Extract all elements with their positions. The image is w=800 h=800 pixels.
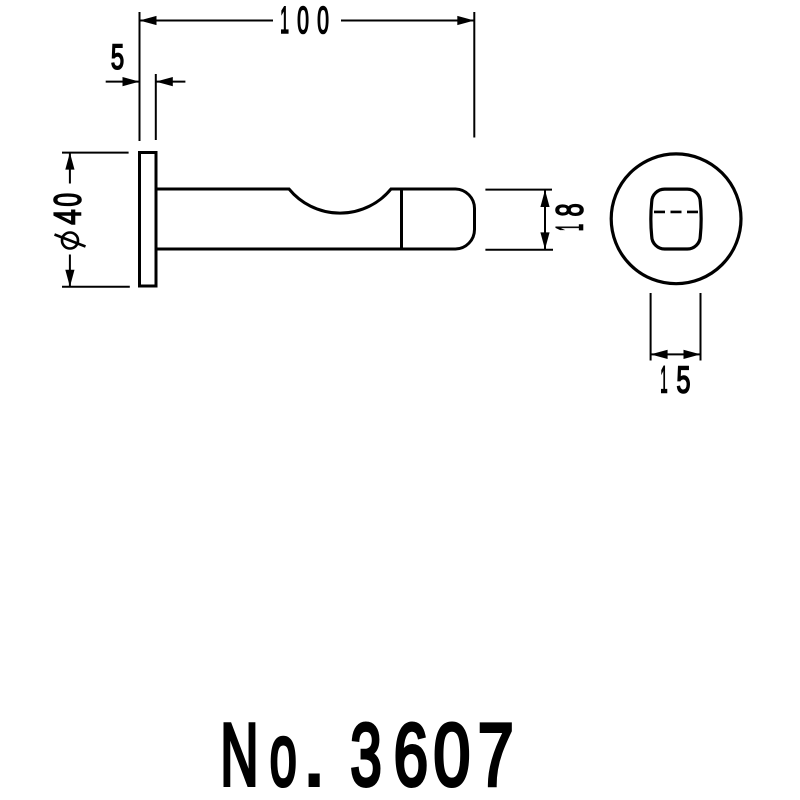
svg-text:4: 4 — [47, 209, 89, 224]
dimension 5: right arrowhead — [156, 77, 173, 86]
svg-text:7: 7 — [478, 706, 514, 800]
dimension 5: outside dimension line right — [156, 81, 186, 83]
dimension 5: outside dimension line left — [106, 81, 140, 83]
svg-text:1: 1 — [280, 0, 289, 42]
front view: hook knob barrel outline — [651, 189, 701, 249]
svg-text:.: . — [303, 705, 325, 800]
svg-text:6: 6 — [394, 706, 428, 800]
dimension 18: bottom arrowhead — [540, 232, 549, 249]
svg-text:0: 0 — [433, 707, 470, 800]
svg-text:5: 5 — [676, 358, 690, 400]
dimension 15: left arrowhead — [651, 350, 668, 359]
svg-text:1: 1 — [660, 359, 667, 402]
dimension phi40: diameter symbol (circle) — [62, 233, 78, 249]
svg-text:o: o — [270, 707, 297, 800]
dimension phi40: top extension line — [62, 152, 129, 154]
front view: outer circle of flange — [611, 154, 741, 284]
svg-text:1: 1 — [549, 224, 592, 231]
side view: wall flange plate — [140, 153, 157, 287]
svg-text:N: N — [220, 706, 258, 800]
dimension 5: left arrowhead — [123, 77, 140, 86]
dimension phi40: diameter symbol (slash) — [55, 235, 86, 247]
dimension 15: right arrowhead — [684, 350, 701, 359]
dimension 100: left arrowhead — [140, 16, 157, 25]
dimension 18: dimension line — [544, 190, 546, 249]
svg-text:5: 5 — [111, 39, 124, 78]
dimension phi40: bottom arrowhead — [65, 270, 74, 287]
dimension 15: right extension line — [700, 293, 702, 361]
dimension phi40: top arrowhead — [65, 153, 74, 170]
dimension phi40: bottom extension line — [62, 286, 130, 288]
dimension 100: dimension line right segment — [341, 20, 474, 22]
dimension 100: right extension line — [473, 12, 475, 138]
dimension 100: left extension line — [139, 12, 141, 141]
dimension 100: dimension line left segment — [140, 20, 274, 22]
front view: hidden center dashed line — [654, 211, 699, 214]
dimension 18: bottom extension line — [485, 249, 553, 251]
dimension phi40: dimension line upper segment — [69, 153, 71, 184]
dimension 15: left extension line — [650, 293, 652, 361]
dimension 18: top arrowhead — [540, 190, 549, 207]
svg-text:0: 0 — [317, 0, 329, 42]
dimension 15: dimension line — [651, 353, 701, 355]
svg-text:0: 0 — [297, 0, 309, 42]
dimension 18: top extension line — [485, 189, 552, 191]
dimension phi40: dimension line lower segment — [69, 255, 71, 287]
side view: division line between stem and end cap — [400, 189, 403, 249]
dimension 5: right extension line — [155, 74, 157, 140]
svg-text:0: 0 — [46, 193, 89, 207]
svg-text:8: 8 — [548, 203, 591, 216]
svg-text:3: 3 — [350, 705, 381, 800]
dimension 100: right arrowhead — [457, 16, 474, 25]
side view: hook body outline with notch and rounded end — [156, 189, 475, 249]
